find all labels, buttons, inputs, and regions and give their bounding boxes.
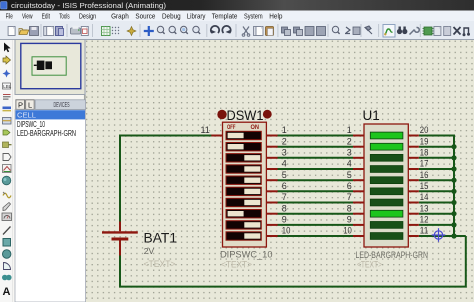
wire DSW1 pin6 to U1 pin6	[278, 190, 354, 192]
wire U1 pin13 to bus	[419, 213, 454, 215]
svg-text:1: 1	[282, 125, 287, 135]
left tool strip background	[0, 40, 13, 302]
toolbar: cut	[243, 27, 249, 35]
wire U1 pin20 to common bus	[419, 136, 454, 237]
switch element 8 of DSW1	[226, 210, 261, 218]
wire DSW1 pin7 to U1 pin7	[278, 202, 354, 204]
schematic overview preview panel	[15, 40, 85, 95]
tool: subcircuit mode	[3, 118, 12, 125]
toolbar: pick parts magnifier	[332, 26, 339, 34]
svg-text:15: 15	[420, 181, 429, 191]
toolbar: copy	[254, 27, 261, 36]
U1 pin 3 (anode)	[353, 157, 364, 159]
title bar	[0, 0, 474, 11]
U1 pin 11 (cathode)	[408, 235, 419, 237]
LED segment 8 of U1 (lit)	[370, 210, 403, 217]
U1 pin 10 (anode)	[353, 235, 364, 237]
switch element 1 of DSW1	[226, 131, 261, 139]
canvas/sidebar separator	[83, 40, 84, 302]
junction on bus at pin15	[451, 189, 456, 194]
sidebar background	[13, 40, 86, 302]
svg-text:20: 20	[420, 125, 429, 135]
tool: buses mode	[3, 107, 12, 112]
wire battery negative bottom loop to LED common return	[120, 236, 466, 287]
svg-text:7: 7	[282, 192, 287, 202]
U1 pin 13 (cathode)	[408, 213, 419, 215]
switch element 10 of DSW1	[226, 232, 261, 240]
LED segment 5 of U1 (off)	[370, 177, 403, 184]
tool: selection pointer	[4, 43, 11, 53]
toolbar: snap grid dots	[112, 27, 119, 34]
toolbar: zoom tool at 172.7	[169, 26, 176, 34]
svg-text:2: 2	[282, 136, 287, 146]
svg-text:A: A	[3, 286, 11, 298]
svg-text:6: 6	[347, 181, 352, 191]
DSW1 pin 4	[266, 168, 277, 170]
U1 pin 4 (anode)	[353, 168, 364, 170]
svg-text:Source: Source	[135, 12, 155, 21]
svg-text:<TEXT>: <TEXT>	[357, 259, 382, 269]
svg-text:18: 18	[420, 147, 429, 157]
wire DSW1 pin4 to U1 pin4	[278, 168, 354, 170]
application icon	[1, 2, 8, 10]
svg-text:DSW1: DSW1	[227, 108, 264, 123]
placement crosshair cursor marker	[432, 228, 446, 242]
tool: 2D circle	[3, 250, 11, 258]
tool: wire label mode	[3, 83, 11, 89]
U1 pin 8 (anode)	[353, 213, 364, 215]
wire battery positive to DSW1 pin11 (top left loop)	[120, 136, 212, 223]
tool: component mode	[3, 56, 11, 64]
wire U1 pin19 to bus	[419, 146, 454, 148]
wire U1 pin17 to bus	[419, 168, 454, 170]
toolbar background	[0, 21, 474, 40]
U1 pin 14 (cathode)	[408, 202, 419, 204]
toolbar: property assignment tool	[410, 27, 420, 34]
wire U1 pin16 to bus	[419, 179, 454, 181]
toolbar: block tool at 298	[294, 27, 303, 36]
junction on bus at pin13	[451, 211, 456, 216]
svg-text:OFF: OFF	[227, 124, 236, 131]
junction on bus at pin16	[451, 178, 456, 183]
LED segment 6 of U1 (off)	[370, 188, 403, 195]
switch element 7 of DSW1	[226, 198, 261, 206]
toolbar: zoom tool at 196.5	[193, 26, 200, 34]
svg-text:9: 9	[282, 215, 287, 225]
switch element 4 of DSW1	[226, 165, 261, 173]
LED bargraph U1 body	[364, 124, 408, 247]
wire U1 pin15 to bus	[419, 190, 454, 192]
tool: 2D line	[3, 227, 11, 235]
tool: current probe mode	[3, 203, 11, 211]
toolbar: save design	[30, 27, 39, 36]
svg-text:4: 4	[347, 159, 352, 169]
svg-text:Design: Design	[79, 12, 96, 21]
toolbar: redo	[222, 26, 230, 33]
tool: virtual instruments mode	[2, 213, 12, 221]
svg-text:12: 12	[420, 215, 429, 225]
U1 pin 20 (cathode)	[408, 135, 419, 137]
svg-text:4: 4	[282, 159, 287, 169]
U1 pin 9 (anode)	[353, 224, 364, 226]
toolbar: print	[71, 26, 81, 34]
LED segment 9 of U1 (off)	[370, 222, 403, 229]
toolbar: new sheet	[434, 27, 441, 36]
DEVICES list header	[35, 100, 85, 110]
DSW1 pin 6	[266, 190, 277, 192]
svg-text:19: 19	[420, 136, 429, 146]
toolbar: mark output area	[81, 27, 88, 36]
svg-text:Template: Template	[212, 12, 238, 21]
U1 pin 18 (cathode)	[408, 157, 419, 159]
device entry CELL (selected)	[16, 110, 86, 119]
toolbar: pan	[144, 26, 154, 36]
svg-text:LBL: LBL	[3, 84, 12, 89]
toolbar: zoom tool at 184.2	[181, 26, 188, 34]
svg-text:11: 11	[420, 226, 429, 236]
svg-text:2: 2	[347, 136, 352, 146]
LED segment 7 of U1 (off)	[370, 199, 403, 206]
DSW1 pin 3	[266, 157, 277, 159]
tool: voltage probe mode	[3, 193, 11, 198]
svg-text:CELL: CELL	[17, 110, 36, 119]
junction on bus at pin19	[451, 144, 456, 149]
LED segment 4 of U1 (off)	[370, 166, 403, 173]
svg-text:BAT1: BAT1	[144, 230, 178, 246]
wire DSW1 pin10 to U1 pin10	[278, 235, 354, 237]
dip switch DSW1 body	[223, 122, 267, 247]
LED segment 10 of U1 (off)	[370, 233, 403, 240]
tool: terminals mode	[3, 130, 10, 135]
U1 pin 12 (cathode)	[408, 224, 419, 226]
toolbar: open design	[19, 29, 29, 35]
wire U1 pin12 to bus	[419, 224, 454, 226]
svg-text:6: 6	[282, 181, 287, 191]
U1 pin 7 (anode)	[353, 202, 364, 204]
U1 pin 2 (anode)	[353, 146, 364, 148]
tool: 2D closed path	[2, 275, 12, 281]
preview sheet border (navy)	[21, 43, 81, 88]
toolbar: decompose hammer	[365, 26, 372, 34]
svg-text:View: View	[22, 12, 33, 21]
toolbar: make device	[345, 27, 350, 34]
svg-text:<TEXT>: <TEXT>	[221, 260, 252, 270]
junction on bus at pin12	[451, 222, 456, 227]
toolbar: goto sheet	[454, 27, 461, 35]
wire DSW1 pin2 to U1 pin2	[278, 146, 354, 148]
toolbar: packaging tool	[353, 27, 360, 35]
svg-text:System: System	[244, 12, 263, 21]
toolbar: block tool at 321	[317, 27, 326, 36]
svg-text:P: P	[18, 101, 23, 110]
svg-text:3: 3	[347, 147, 352, 157]
junction on bus at pin17	[451, 166, 456, 171]
svg-text:DIPSWC_10: DIPSWC_10	[17, 120, 45, 129]
svg-text:10: 10	[282, 226, 291, 236]
svg-text:File: File	[6, 12, 13, 21]
svg-text:3: 3	[282, 147, 287, 157]
svg-text:5: 5	[282, 170, 287, 180]
tool: 2D box	[3, 239, 11, 247]
wire U1 pin14 to bus	[419, 202, 454, 204]
toolbar: block tool at 309.5	[305, 27, 314, 36]
wire DSW1 pin9 to U1 pin9	[278, 224, 354, 226]
wire DSW1 pin8 to U1 pin8	[278, 213, 354, 215]
preview green sheet outline	[32, 57, 66, 75]
battery BAT1	[102, 222, 138, 256]
junction at pin11 / bottom return	[451, 233, 456, 238]
switch element 9 of DSW1	[226, 221, 261, 229]
DSW1 pin 2	[266, 146, 277, 148]
schematic canvas background grid	[86, 40, 474, 302]
tool: device pins mode	[3, 142, 12, 148]
DSW1 pin 11 (common)	[211, 135, 222, 137]
DSW1 pin 9	[266, 224, 277, 226]
toolbar: search tag binoculars	[397, 27, 408, 35]
toolbar: wire autorouter (active)	[383, 25, 395, 38]
switch element 6 of DSW1	[226, 187, 261, 195]
svg-text:14: 14	[420, 192, 429, 202]
toolbar: remove sheet	[444, 27, 451, 36]
U1 pin 16 (cathode)	[408, 179, 419, 181]
wire DSW1 pin1 to U1 pin1	[278, 135, 354, 137]
U1 pin 6 (anode)	[353, 190, 364, 192]
wire DSW1 pin5 to U1 pin5	[278, 179, 354, 181]
svg-text:8: 8	[347, 203, 352, 213]
svg-text:Debug: Debug	[162, 12, 181, 21]
toolbar: design explorer	[423, 27, 434, 35]
toolbar: toggle grid	[102, 27, 111, 36]
svg-text:2V: 2V	[144, 246, 155, 256]
U1 pin 1 (anode)	[353, 135, 364, 137]
LED segment 1 of U1 (lit)	[370, 132, 403, 139]
toolbar: block tool at 286	[282, 27, 291, 36]
menu bar	[0, 11, 474, 22]
wire U1 pin18 to bus	[419, 157, 454, 159]
U1 pin 19 (cathode)	[408, 146, 419, 148]
tool: text script mode	[3, 95, 11, 100]
svg-text:Edit: Edit	[42, 12, 51, 21]
svg-text:17: 17	[420, 159, 429, 169]
tool: 2D arc	[4, 263, 11, 270]
P button	[16, 100, 25, 110]
svg-text:7: 7	[347, 192, 352, 202]
svg-text:Graph: Graph	[111, 12, 129, 21]
LED segment 2 of U1 (lit)	[370, 143, 403, 150]
preview circuit glyph	[34, 61, 52, 70]
U1 pin 15 (cathode)	[408, 190, 419, 192]
toolbar: paste	[266, 27, 274, 36]
svg-text:Help: Help	[269, 12, 282, 21]
DSW1 toggle dot left	[217, 110, 226, 119]
DSW1 pin 5	[266, 179, 277, 181]
svg-text:ON: ON	[251, 124, 260, 131]
LED segment 3 of U1 (off)	[370, 154, 403, 161]
toolbar: zoom tool at 161	[157, 26, 164, 34]
toolbar: import section	[44, 27, 51, 36]
tool: generator mode	[2, 176, 11, 185]
U1 pin 17 (cathode)	[408, 168, 419, 170]
toolbar: new design	[8, 27, 15, 36]
DSW1 pin 8	[266, 213, 277, 215]
svg-text:10: 10	[343, 226, 352, 236]
toolbar: undo	[211, 26, 219, 33]
junction on bus at pin14	[451, 200, 456, 205]
svg-text:Library: Library	[187, 12, 206, 21]
switch element 5 of DSW1	[226, 176, 261, 184]
svg-text:1: 1	[347, 125, 352, 135]
DSW1 pin 10	[266, 235, 277, 237]
wire DSW1 pin3 to U1 pin3	[278, 157, 354, 159]
DSW1 pin 1	[266, 135, 277, 137]
svg-text:13: 13	[420, 203, 429, 213]
svg-text:8: 8	[282, 203, 287, 213]
svg-text:<TEXT>: <TEXT>	[144, 259, 176, 269]
svg-text:U1: U1	[363, 108, 380, 123]
svg-text:DEVICES: DEVICES	[54, 102, 70, 109]
svg-text:circuitstoday - ISIS Professio: circuitstoday - ISIS Professional (Anima…	[11, 1, 167, 10]
toolbar: export section	[56, 27, 64, 36]
switch element 2 of DSW1	[226, 143, 261, 151]
svg-text:LED-BARGRAPH-GRN: LED-BARGRAPH-GRN	[17, 129, 76, 138]
tool: graph mode	[3, 154, 11, 161]
DSW1 pin 7	[266, 202, 277, 204]
svg-text:9: 9	[347, 215, 352, 225]
svg-text:Tools: Tools	[59, 12, 70, 21]
svg-text:5: 5	[347, 170, 352, 180]
toolbar: origin star	[127, 27, 136, 36]
svg-text:16: 16	[420, 170, 429, 180]
U1 pin 5 (anode)	[353, 179, 364, 181]
svg-text:L: L	[28, 101, 32, 110]
tool: junction dot mode	[3, 70, 11, 78]
svg-text:11: 11	[200, 125, 209, 135]
device list box	[15, 110, 86, 302]
DSW1 toggle dot right	[263, 110, 272, 119]
wire U1 pin11 row to bottom return	[419, 235, 466, 237]
L button	[26, 100, 35, 110]
tool: tape recorder mode	[3, 165, 12, 173]
toolbar: zoom to child	[464, 28, 469, 35]
switch element 3 of DSW1	[226, 154, 261, 162]
junction on bus at pin18	[451, 155, 456, 160]
svg-text:DIPSWC_10: DIPSWC_10	[220, 249, 273, 259]
